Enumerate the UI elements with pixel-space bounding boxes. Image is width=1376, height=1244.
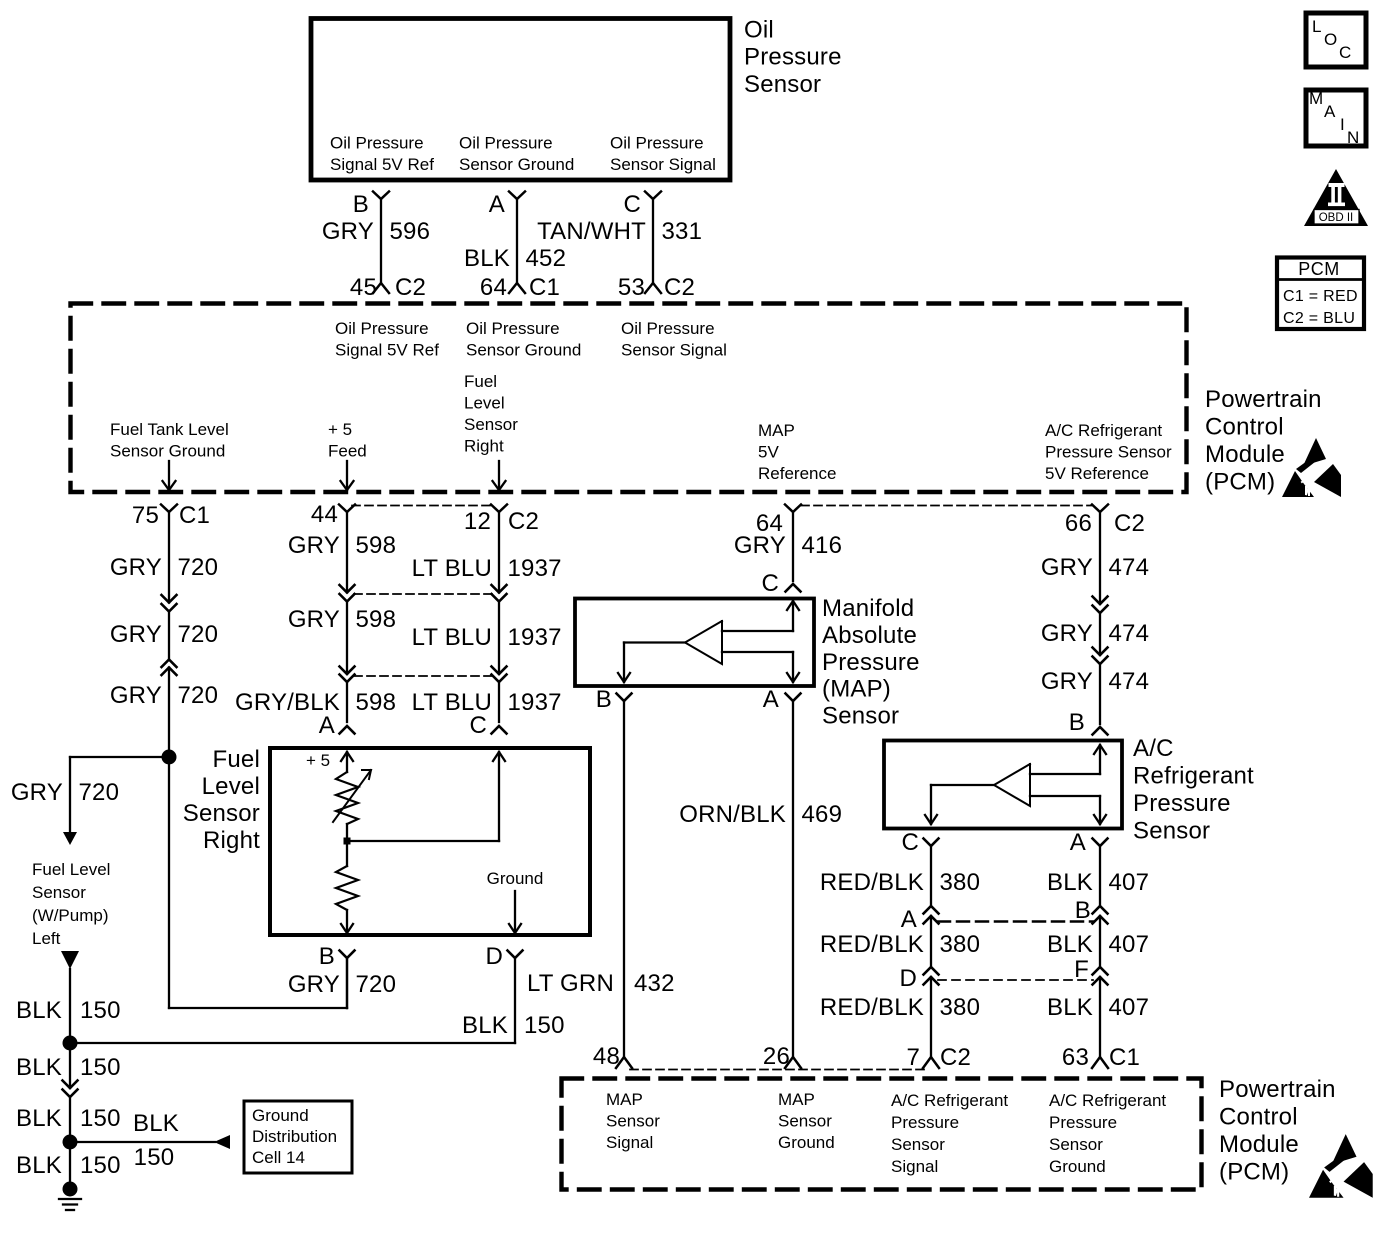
- svg-text:45: 45: [350, 274, 377, 301]
- svg-text:Fuel: Fuel: [213, 746, 261, 773]
- svg-text:A/C: A/C: [1133, 735, 1174, 762]
- svg-text:C2: C2: [395, 274, 426, 301]
- svg-text:MAP: MAP: [758, 421, 795, 440]
- svg-text:A/C Refrigerant: A/C Refrigerant: [1045, 421, 1162, 440]
- svg-text:380: 380: [940, 869, 981, 896]
- svg-text:Level: Level: [202, 773, 260, 800]
- svg-text:BLK: BLK: [1047, 994, 1093, 1021]
- svg-text:C2 = BLU: C2 = BLU: [1283, 310, 1355, 327]
- svg-text:Fuel Tank Level: Fuel Tank Level: [110, 420, 229, 439]
- svg-text:C2: C2: [940, 1044, 971, 1071]
- svg-text:Absolute: Absolute: [822, 622, 917, 649]
- svg-text:Signal: Signal: [606, 1133, 653, 1152]
- svg-text:Oil Pressure: Oil Pressure: [466, 319, 560, 338]
- svg-text:7: 7: [906, 1044, 920, 1071]
- svg-text:Control: Control: [1219, 1104, 1298, 1131]
- svg-text:BLK: BLK: [16, 1152, 62, 1179]
- svg-text:474: 474: [1109, 554, 1150, 581]
- svg-text:GRY: GRY: [322, 218, 374, 245]
- svg-text:C: C: [901, 829, 919, 856]
- svg-text:A: A: [901, 906, 917, 933]
- svg-text:150: 150: [80, 1152, 121, 1179]
- svg-text:474: 474: [1109, 620, 1150, 647]
- svg-text:Right: Right: [203, 827, 260, 854]
- svg-text:BLK: BLK: [464, 245, 510, 272]
- svg-text:GRY: GRY: [1041, 620, 1093, 647]
- svg-text:150: 150: [134, 1144, 175, 1171]
- svg-text:Signal 5V Ref: Signal 5V Ref: [330, 155, 434, 174]
- svg-text:432: 432: [634, 970, 675, 997]
- svg-text:BLK: BLK: [16, 1054, 62, 1081]
- svg-text:Cell 14: Cell 14: [252, 1148, 305, 1167]
- svg-text:598: 598: [356, 532, 397, 559]
- svg-text:Sensor: Sensor: [891, 1135, 945, 1154]
- svg-text:GRY: GRY: [288, 532, 340, 559]
- svg-text:Sensor: Sensor: [464, 415, 518, 434]
- svg-text:C1: C1: [529, 274, 560, 301]
- svg-text:Fuel: Fuel: [464, 372, 497, 391]
- svg-text:5V Reference: 5V Reference: [1045, 464, 1149, 483]
- svg-text:D: D: [899, 965, 917, 992]
- svg-text:Pressure: Pressure: [891, 1113, 959, 1132]
- svg-text:720: 720: [356, 971, 397, 998]
- svg-text:Fuel Level: Fuel Level: [32, 860, 110, 879]
- svg-text:Pressure Sensor: Pressure Sensor: [1045, 443, 1172, 462]
- svg-text:63: 63: [1062, 1044, 1089, 1071]
- svg-text:474: 474: [1109, 668, 1150, 695]
- svg-text:407: 407: [1109, 994, 1150, 1021]
- svg-text:Sensor Signal: Sensor Signal: [621, 341, 727, 360]
- svg-text:Sensor: Sensor: [1049, 1135, 1103, 1154]
- svg-text:RED/BLK: RED/BLK: [820, 869, 924, 896]
- svg-text:150: 150: [80, 1054, 121, 1081]
- svg-text:720: 720: [178, 554, 219, 581]
- svg-text:Module: Module: [1219, 1131, 1299, 1158]
- svg-text:469: 469: [802, 801, 843, 828]
- svg-text:I: I: [1340, 115, 1345, 134]
- svg-text:F: F: [1074, 956, 1089, 983]
- svg-text:Oil Pressure: Oil Pressure: [610, 134, 704, 153]
- svg-text:C1: C1: [179, 502, 210, 529]
- svg-text:C: C: [623, 191, 641, 218]
- svg-text:150: 150: [80, 1105, 121, 1132]
- svg-text:(PCM): (PCM): [1219, 1159, 1289, 1186]
- svg-text:A: A: [1070, 829, 1086, 856]
- svg-text:Feed: Feed: [328, 442, 367, 461]
- svg-text:Signal 5V Ref: Signal 5V Ref: [335, 341, 439, 360]
- svg-text:48: 48: [593, 1043, 620, 1070]
- svg-text:598: 598: [356, 606, 397, 633]
- svg-text:BLK: BLK: [1047, 869, 1093, 896]
- svg-text:MAP: MAP: [778, 1090, 815, 1109]
- svg-text:12: 12: [464, 508, 491, 535]
- svg-text:331: 331: [662, 218, 703, 245]
- svg-text:Pressure: Pressure: [1049, 1113, 1117, 1132]
- svg-text:L: L: [1312, 17, 1321, 36]
- svg-text:Ground: Ground: [487, 869, 544, 888]
- svg-text:GRY: GRY: [110, 682, 162, 709]
- svg-text:PCM: PCM: [1298, 259, 1340, 279]
- svg-text:A: A: [319, 712, 335, 739]
- svg-text:416: 416: [802, 532, 843, 559]
- svg-text:(PCM): (PCM): [1205, 469, 1275, 496]
- svg-text:B: B: [1075, 897, 1091, 924]
- svg-text:Sensor: Sensor: [1133, 818, 1210, 845]
- svg-text:598: 598: [356, 689, 397, 716]
- svg-text:LT GRN: LT GRN: [527, 970, 614, 997]
- svg-text:407: 407: [1109, 931, 1150, 958]
- svg-text:BLK: BLK: [133, 1110, 179, 1137]
- svg-text:GRY: GRY: [288, 971, 340, 998]
- svg-text:Module: Module: [1205, 441, 1285, 468]
- svg-text:26: 26: [763, 1043, 790, 1070]
- svg-text:A: A: [489, 191, 505, 218]
- svg-text:720: 720: [79, 779, 120, 806]
- svg-text:Ground: Ground: [1049, 1157, 1106, 1176]
- svg-text:Oil Pressure: Oil Pressure: [459, 134, 553, 153]
- svg-text:C: C: [1339, 43, 1351, 62]
- svg-text:Sensor: Sensor: [778, 1112, 832, 1131]
- svg-text:Reference: Reference: [758, 464, 836, 483]
- svg-text:Oil Pressure: Oil Pressure: [330, 134, 424, 153]
- svg-text:A/C Refrigerant: A/C Refrigerant: [891, 1091, 1008, 1110]
- svg-text:+ 5: + 5: [328, 420, 352, 439]
- svg-text:Sensor: Sensor: [822, 703, 899, 730]
- svg-text:720: 720: [178, 621, 219, 648]
- svg-text:Sensor: Sensor: [32, 883, 86, 902]
- svg-text:C: C: [469, 712, 487, 739]
- svg-text:B: B: [319, 943, 335, 970]
- svg-text:150: 150: [524, 1012, 565, 1039]
- svg-text:GRY: GRY: [110, 554, 162, 581]
- svg-text:Sensor: Sensor: [606, 1112, 660, 1131]
- svg-text:MAP: MAP: [606, 1090, 643, 1109]
- svg-text:1937: 1937: [508, 624, 562, 651]
- svg-text:Pressure: Pressure: [822, 649, 920, 676]
- svg-text:75: 75: [132, 502, 159, 529]
- svg-text:Sensor: Sensor: [744, 71, 821, 98]
- svg-text:Pressure: Pressure: [744, 44, 842, 71]
- svg-text:C1: C1: [1109, 1044, 1140, 1071]
- svg-text:Sensor Ground: Sensor Ground: [459, 155, 574, 174]
- svg-text:GRY: GRY: [11, 779, 63, 806]
- svg-text:(MAP): (MAP): [822, 676, 891, 703]
- svg-text:M: M: [1309, 89, 1323, 108]
- svg-text:380: 380: [940, 994, 981, 1021]
- svg-text:RED/BLK: RED/BLK: [820, 931, 924, 958]
- svg-text:Control: Control: [1205, 414, 1284, 441]
- svg-text:O: O: [1324, 30, 1337, 49]
- svg-text:C1 = RED: C1 = RED: [1283, 288, 1358, 305]
- svg-text:Signal: Signal: [891, 1157, 938, 1176]
- svg-text:53: 53: [618, 274, 645, 301]
- svg-text:64: 64: [480, 274, 507, 301]
- svg-text:150: 150: [80, 997, 121, 1024]
- svg-text:Powertrain: Powertrain: [1205, 386, 1322, 413]
- svg-text:Refrigerant: Refrigerant: [1133, 763, 1254, 790]
- svg-text:Right: Right: [464, 437, 504, 456]
- svg-text:Powertrain: Powertrain: [1219, 1076, 1336, 1103]
- svg-text:GRY: GRY: [110, 621, 162, 648]
- svg-text:BLK: BLK: [16, 1105, 62, 1132]
- svg-text:GRY: GRY: [734, 532, 786, 559]
- svg-text:720: 720: [178, 682, 219, 709]
- svg-text:C2: C2: [1114, 510, 1145, 537]
- svg-text:Sensor Ground: Sensor Ground: [110, 442, 225, 461]
- svg-text:C: C: [761, 570, 779, 597]
- svg-text:Sensor: Sensor: [183, 800, 260, 827]
- svg-text:OBD II: OBD II: [1319, 212, 1354, 224]
- svg-text:GRY: GRY: [288, 606, 340, 633]
- svg-text:407: 407: [1109, 869, 1150, 896]
- svg-text:Level: Level: [464, 394, 505, 413]
- svg-text:Left: Left: [32, 929, 61, 948]
- svg-text:Sensor Signal: Sensor Signal: [610, 155, 716, 174]
- svg-text:BLK: BLK: [1047, 931, 1093, 958]
- svg-text:Distribution: Distribution: [252, 1127, 337, 1146]
- svg-text:GRY: GRY: [1041, 554, 1093, 581]
- svg-text:RED/BLK: RED/BLK: [820, 994, 924, 1021]
- svg-text:1937: 1937: [508, 555, 562, 582]
- svg-text:B: B: [353, 191, 369, 218]
- svg-text:C2: C2: [664, 274, 695, 301]
- svg-text:(W/Pump): (W/Pump): [32, 906, 109, 925]
- svg-text:Sensor Ground: Sensor Ground: [466, 341, 581, 360]
- svg-text:66: 66: [1065, 510, 1092, 537]
- svg-text:Pressure: Pressure: [1133, 790, 1231, 817]
- svg-text:Ground: Ground: [252, 1106, 309, 1125]
- svg-text:BLK: BLK: [462, 1012, 508, 1039]
- svg-text:1937: 1937: [508, 689, 562, 716]
- svg-text:A: A: [1324, 102, 1336, 121]
- svg-text:Oil Pressure: Oil Pressure: [621, 319, 715, 338]
- svg-text:LT BLU: LT BLU: [412, 624, 492, 651]
- svg-text:Oil: Oil: [744, 17, 774, 44]
- svg-text:596: 596: [390, 218, 431, 245]
- svg-text:A/C Refrigerant: A/C Refrigerant: [1049, 1091, 1166, 1110]
- svg-text:A: A: [763, 686, 779, 713]
- svg-text:TAN/WHT: TAN/WHT: [537, 218, 646, 245]
- svg-text:380: 380: [940, 931, 981, 958]
- svg-text:Manifold: Manifold: [822, 595, 914, 622]
- svg-text:C2: C2: [508, 508, 539, 535]
- svg-text:D: D: [485, 943, 503, 970]
- svg-text:B: B: [596, 686, 612, 713]
- svg-text:Ground: Ground: [778, 1133, 835, 1152]
- svg-text:LT BLU: LT BLU: [412, 555, 492, 582]
- svg-text:BLK: BLK: [16, 997, 62, 1024]
- svg-text:+ 5: + 5: [306, 751, 330, 770]
- svg-text:5V: 5V: [758, 443, 779, 462]
- svg-text:ORN/BLK: ORN/BLK: [679, 801, 786, 828]
- svg-text:452: 452: [526, 245, 567, 272]
- svg-text:44: 44: [311, 501, 338, 528]
- svg-text:N: N: [1347, 128, 1359, 147]
- svg-text:Oil Pressure: Oil Pressure: [335, 319, 429, 338]
- svg-text:GRY: GRY: [1041, 668, 1093, 695]
- svg-text:B: B: [1069, 709, 1085, 736]
